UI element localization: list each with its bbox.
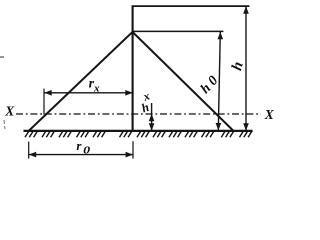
svg-text:X: X	[264, 107, 275, 122]
svg-text:0: 0	[83, 145, 91, 157]
svg-text:X: X	[4, 103, 15, 118]
